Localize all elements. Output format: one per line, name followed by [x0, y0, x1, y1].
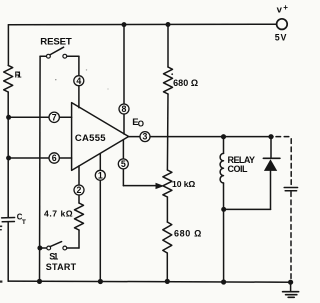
svg-text:2: 2	[77, 185, 82, 195]
svg-text:5V: 5V	[275, 33, 287, 43]
svg-text:v: v	[277, 5, 283, 16]
svg-text:R1: R1	[15, 70, 22, 79]
svg-text:1: 1	[98, 170, 103, 180]
svg-text:S1: S1	[49, 252, 58, 262]
svg-text:6: 6	[52, 153, 57, 163]
svg-text:RESET: RESET	[40, 36, 72, 47]
svg-text:4: 4	[76, 76, 81, 86]
svg-text:COIL: COIL	[228, 164, 249, 174]
svg-text:3: 3	[143, 132, 148, 142]
svg-text:START: START	[46, 262, 77, 272]
svg-text:O: O	[138, 119, 144, 128]
svg-text:4.7 kΩ: 4.7 kΩ	[44, 208, 73, 218]
svg-text:8: 8	[122, 104, 127, 114]
svg-text:+: +	[283, 3, 288, 12]
svg-text:T: T	[22, 219, 26, 226]
svg-text:680 Ω: 680 Ω	[173, 78, 198, 88]
svg-text:7: 7	[52, 112, 57, 122]
svg-text:5: 5	[121, 159, 126, 169]
svg-text:10 kΩ: 10 kΩ	[172, 179, 195, 189]
svg-text:680 Ω: 680 Ω	[174, 228, 201, 238]
svg-text:CA555: CA555	[75, 133, 106, 144]
